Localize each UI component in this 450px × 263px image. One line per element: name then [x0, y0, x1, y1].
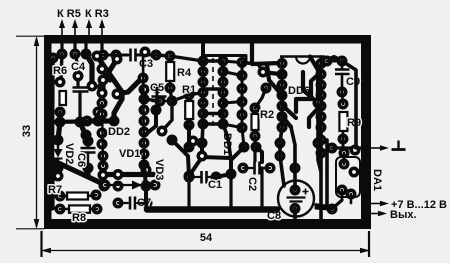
node VD1 pads	[100, 180, 161, 191]
diode VD2	[54, 149, 63, 159]
resistor R8	[69, 205, 90, 224]
wire R8 lead2	[90, 208, 97, 211]
wire C4 top lead	[75, 54, 78, 86]
wire row 124	[48, 121, 114, 122]
wire DD1 col traces right	[222, 61, 225, 124]
wire VD2 lead2	[57, 159, 59, 169]
svg-text:C6: C6	[75, 153, 87, 167]
node C7 pads	[113, 198, 153, 209]
svg-text:C9: C9	[346, 76, 360, 88]
wire DD1 top feed	[170, 56, 203, 61]
wire R7 lead2	[88, 195, 96, 196]
node right verticals pads	[275, 56, 338, 215]
capacitor C6	[81, 148, 96, 153]
resistor R4	[166, 62, 192, 81]
node mid row	[155, 96, 178, 107]
wire C6 lead2	[87, 153, 89, 169]
svg-text:DA1: DA1	[371, 169, 383, 191]
node pad left86	[81, 130, 92, 141]
wire C7 lead	[118, 202, 128, 204]
wire triangle traces	[216, 147, 262, 177]
wire top arrows to R5 R3	[59, 19, 105, 36]
svg-text:VD3: VD3	[153, 159, 165, 180]
capacitor C3	[131, 49, 154, 71]
wire x242 branch	[242, 63, 263, 73]
wire DD6 left col	[281, 64, 284, 128]
wire C5 lead2	[156, 101, 157, 110]
wire rail stubs	[52, 196, 60, 209]
label C8	[267, 210, 281, 222]
IC DD1 body dashed	[212, 58, 214, 127]
svg-text:VD2: VD2	[63, 143, 75, 164]
wire Vyh arrow	[371, 211, 387, 217]
wire R4 leads	[169, 81, 172, 88]
svg-text:33: 33	[21, 125, 33, 137]
label VD1	[119, 148, 140, 160]
IC DD6 notch	[280, 57, 325, 64]
wire mid row link	[144, 99, 160, 101]
node R2 pads	[250, 103, 261, 142]
wire C3 left lead	[103, 54, 128, 57]
label DD2	[108, 126, 130, 138]
wire left diagonal mesh	[86, 54, 142, 121]
label Vyh	[390, 209, 417, 221]
resistor R6	[53, 65, 67, 105]
dimension 54 text	[200, 232, 213, 244]
node C4 top	[73, 71, 84, 82]
wire C4 bottom lead	[78, 93, 81, 122]
svg-text:К R5: К R5	[57, 8, 81, 20]
resistor R2	[252, 109, 275, 130]
capacitor C4	[71, 61, 89, 92]
wire ground run	[332, 146, 363, 149]
wire R4 bottom link	[170, 89, 172, 101]
wire VD1 line	[105, 184, 155, 186]
wire DD2 left col vertical	[102, 103, 103, 166]
capacitor C5	[150, 82, 167, 101]
svg-text:R7: R7	[48, 184, 62, 196]
svg-text:R2: R2	[260, 109, 274, 121]
capacitor C7	[130, 197, 151, 210]
node R4 pads	[165, 51, 176, 94]
wire mid bottom traces	[144, 110, 230, 201]
IC DD6 right column pads	[316, 58, 327, 133]
label VD3	[153, 159, 165, 180]
wire x242 vertical	[241, 63, 244, 128]
wire link DD1 x242 top	[222, 61, 242, 63]
node pad 145 52	[140, 47, 151, 58]
label K R3	[85, 8, 109, 20]
svg-text:R4: R4	[177, 67, 192, 79]
wire right verticals	[295, 61, 356, 220]
wire C8 top feed	[202, 124, 295, 190]
wire R2 top	[255, 88, 266, 108]
IC DD1 right column pads	[218, 56, 229, 130]
label +7V..12V	[391, 199, 447, 211]
wire C9 lead2	[341, 74, 344, 92]
dimension 33 line	[16, 36, 44, 229]
wire C1 lead2	[208, 176, 216, 178]
node triangle pads	[197, 142, 262, 180]
wire C2 lead	[243, 167, 253, 169]
wire R9 join	[342, 92, 343, 104]
svg-text:R8: R8	[72, 212, 86, 224]
svg-text:C4: C4	[71, 61, 86, 73]
diode VD1	[132, 181, 144, 190]
wire C9 leads	[341, 61, 344, 69]
wire DD1 top stub	[201, 43, 205, 61]
wire C3 right lead	[137, 54, 156, 57]
node ground pad	[327, 143, 338, 154]
capacitor C9	[335, 70, 360, 89]
node top row	[48, 49, 162, 64]
wire R9 to ground	[342, 139, 345, 148]
label C2	[246, 177, 258, 191]
node R8 pads	[55, 204, 103, 215]
wire +7V arrow	[371, 201, 389, 207]
wire bus feeders	[146, 168, 342, 209]
wire top trace to x242	[203, 56, 246, 63]
node C2 pads	[238, 163, 276, 174]
node VD2 pads	[53, 135, 64, 174]
wire R7 leads	[60, 195, 67, 198]
wire DD2 col vertical	[143, 57, 144, 165]
wire x252 from border	[252, 43, 280, 64]
IC DD1 left column pads	[198, 56, 209, 130]
wire DD1 to x242 links	[223, 72, 242, 128]
wire left rail	[51, 58, 55, 176]
node mid bottom	[141, 126, 208, 192]
node C8 pads	[290, 163, 301, 215]
node R6 pads	[55, 77, 66, 118]
ground symbol	[392, 141, 406, 150]
label DD6	[288, 85, 310, 97]
IC DD2 left column pads	[97, 98, 109, 172]
wire top right to R4	[156, 55, 170, 56]
wire DD6 right col	[320, 64, 323, 128]
capacitor C2	[255, 162, 260, 175]
wire R1 to DD1	[189, 93, 203, 96]
svg-text:Вых.: Вых.	[390, 209, 417, 221]
wire mid diag	[162, 101, 172, 131]
wire DD6 top2	[320, 57, 323, 64]
label DA1	[371, 169, 383, 191]
dimension 54 line	[41, 231, 370, 257]
svg-text:C2: C2	[246, 177, 258, 191]
wire DD1 rungs	[203, 61, 223, 124]
IC DD2 right column pads	[138, 73, 150, 171]
wire topright diagonals	[263, 57, 342, 104]
node R1 pads	[184, 90, 195, 131]
node x263 pad	[258, 67, 272, 94]
wire R6 top	[61, 54, 62, 78]
node R9 pads	[338, 99, 349, 145]
IC DD6 left column pads	[277, 58, 288, 133]
node C9 pads	[337, 56, 348, 98]
wire bottom ground bus	[147, 206, 277, 213]
label DD1	[221, 133, 233, 155]
wire C2 lead2	[261, 167, 270, 169]
IC DA1 outline	[336, 157, 360, 197]
wire R6 bottom	[58, 112, 61, 122]
resistor R7	[48, 184, 88, 200]
node left mid mesh	[87, 51, 123, 118]
wire pad327 stub	[327, 60, 336, 63]
wire DD1 col traces	[202, 61, 205, 124]
node left bottom junctions	[53, 169, 124, 192]
label K R5	[57, 8, 81, 20]
wire R9 bottom	[342, 131, 345, 139]
resistor R1	[182, 84, 196, 119]
wire C1 lead	[189, 176, 200, 178]
node C1 pads	[184, 172, 222, 183]
dimension 33 text	[21, 125, 33, 137]
node R7 pads	[55, 190, 102, 202]
label VD2	[63, 143, 75, 164]
svg-text:К R3: К R3	[85, 8, 109, 20]
wire ground arrow	[371, 145, 389, 151]
wire DA1 traces	[342, 153, 351, 203]
wire R8 leads	[60, 208, 69, 211]
svg-text:R9: R9	[347, 117, 361, 129]
wire top stubs	[62, 43, 102, 55]
wire C7 lead2	[137, 202, 147, 204]
node C6 pads	[83, 136, 94, 174]
svg-text:C1: C1	[208, 179, 222, 191]
wire DD6 top	[281, 57, 284, 64]
wire R6 border feed	[48, 80, 60, 83]
node C5 pads	[151, 83, 163, 116]
board outline	[44, 35, 371, 229]
node row 124	[55, 116, 120, 128]
svg-text:54: 54	[200, 232, 213, 244]
resistor R9	[339, 112, 361, 131]
wire R2 bottom	[253, 136, 256, 161]
capacitor C8	[278, 181, 314, 217]
wire left bottom traces	[52, 122, 160, 208]
svg-text:DD2: DD2	[108, 126, 130, 138]
label C6	[75, 153, 87, 167]
svg-text:C3: C3	[139, 58, 153, 70]
svg-text:R6: R6	[53, 65, 67, 77]
svg-text:VD1: VD1	[119, 148, 140, 160]
wire VD2 lead	[57, 140, 59, 149]
wire C5 leads	[156, 88, 159, 96]
wire C6 lead	[87, 141, 89, 148]
wire R1 link	[172, 95, 189, 101]
node column x242	[237, 57, 248, 133]
IC DA1 pads	[337, 145, 361, 200]
wire x242 to pad244	[242, 128, 244, 147]
capacitor C1	[202, 171, 223, 191]
wire DD6 inner diagonals	[282, 72, 321, 127]
